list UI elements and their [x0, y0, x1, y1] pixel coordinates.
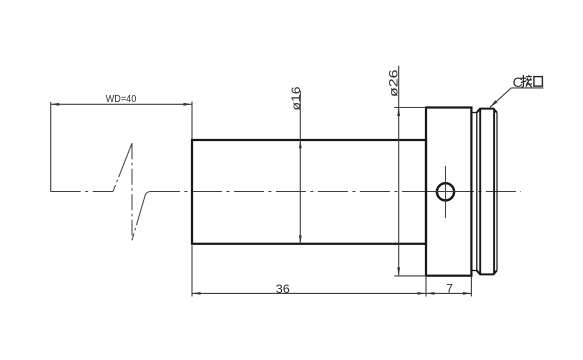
CJK glyph jie (right part) — [526, 75, 532, 87]
flange — [426, 108, 471, 276]
ring B chamfer tangent line right — [493, 109, 495, 275]
ring A (relief groove ring) — [471, 113, 476, 271]
ring B chamfer tangent line left — [479, 109, 481, 275]
set screw hole circle — [437, 183, 454, 200]
svg-text:WD=40: WD=40 — [106, 93, 137, 105]
dia16 arrow up — [299, 140, 302, 148]
C-mount leader arrowhead — [490, 100, 497, 107]
svg-text:7: 7 — [446, 282, 453, 296]
break symbol upper diagonal — [113, 143, 132, 191]
dia26 arrow up — [397, 108, 400, 117]
centerline dash across hole — [428, 191, 468, 193]
CJK glyph kou (mouth box) — [534, 77, 543, 87]
centerline right segment — [150, 191, 521, 193]
36/7 shared extension line — [425, 277, 427, 297]
WD=40 dimension line — [51, 103, 192, 105]
WD extension line (left reference) — [50, 102, 52, 192]
WD arrow right — [184, 103, 193, 106]
WD arrow left — [51, 103, 60, 106]
36 arrow right — [418, 292, 427, 295]
dia26 arrow down — [397, 267, 400, 276]
WD right extension line — [191, 102, 193, 140]
36 extension line left — [191, 246, 193, 297]
ring B bottom edge — [477, 271, 497, 275]
break symbol lower diagonal — [132, 192, 151, 241]
dia26 dimension line — [398, 66, 400, 276]
36 dimension line — [192, 292, 426, 294]
7 arrow left — [426, 292, 435, 295]
svg-text:36: 36 — [276, 282, 290, 296]
7 extension line right — [470, 277, 472, 297]
7 dimension line — [426, 292, 471, 294]
CJK glyph jie (hand radical) — [521, 75, 526, 87]
C-mount label underline — [511, 87, 543, 89]
dia26 extension line top — [394, 107, 426, 109]
36 arrow left — [192, 292, 201, 295]
body (lens tube) — [192, 140, 426, 244]
dia16 dimension line — [299, 91, 301, 244]
ring B right face — [496, 112, 498, 270]
dia26 extension line bottom — [394, 275, 426, 277]
dia16 arrow down — [299, 235, 302, 243]
hole vertical centerline — [445, 166, 447, 218]
break symbol vertical — [131, 143, 133, 240]
7 arrow right — [463, 292, 472, 295]
ring B (C-mount thread ring, chamfered) top edge — [477, 109, 497, 113]
svg-text:ø16: ø16 — [289, 86, 303, 110]
centerline left segment — [51, 191, 113, 193]
C-mount leader line — [490, 88, 511, 107]
svg-text:ø26: ø26 — [387, 69, 401, 97]
